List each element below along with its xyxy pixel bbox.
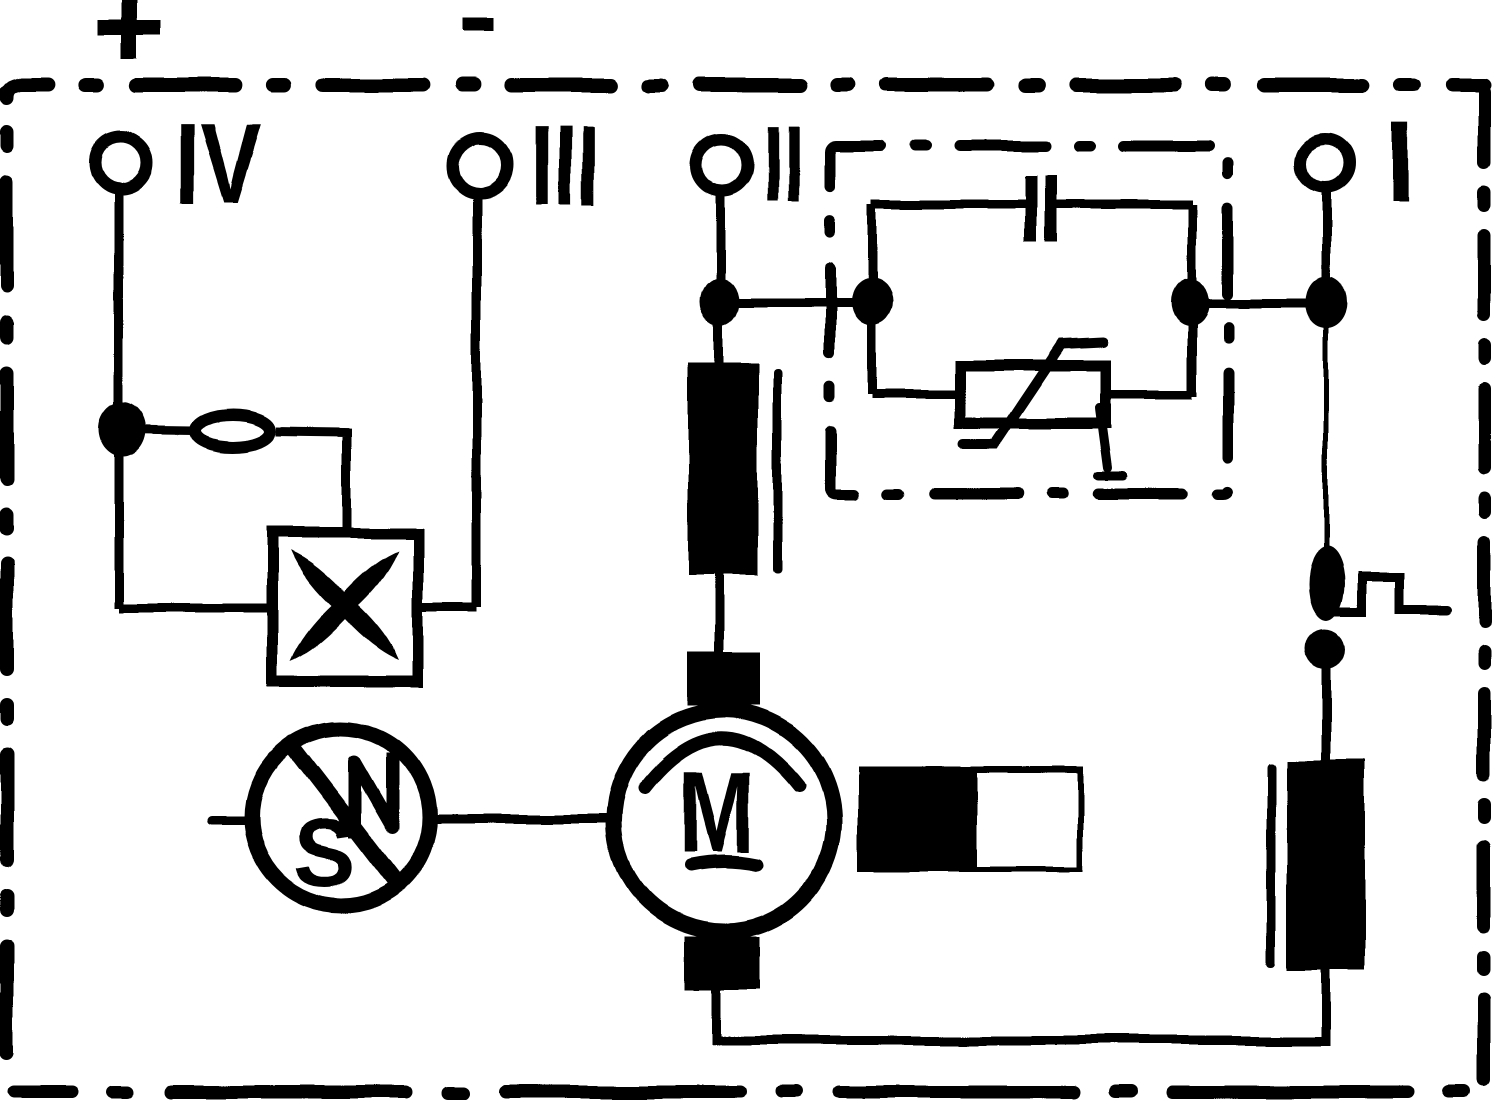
terminal II circle (696, 139, 748, 191)
wire: junction down left side (114, 430, 123, 608)
wire: resistor bottom down and left along bottom (717, 970, 1326, 1040)
wire: lamp right to III vertical (418, 604, 477, 613)
wire: I terminal down to junction (1322, 192, 1331, 302)
motor bottom brush (685, 936, 760, 989)
wire: down to resistor right branch (1322, 660, 1331, 762)
fuse (oval) (196, 415, 270, 447)
svg-text:S: S (293, 801, 356, 907)
lamp box with X (272, 533, 418, 681)
wire: loop top left to capacitor (872, 200, 1026, 209)
wire: II junction right to loop junction (720, 299, 872, 308)
junction node at I (1305, 276, 1347, 328)
resistor (terminal II branch, filled) (688, 363, 758, 575)
wire: bottom horizontal to lamp left (118, 604, 272, 613)
wire: loop bottom left to thermistor (872, 390, 960, 399)
wire: loop right vertical (1188, 204, 1197, 396)
junction node at IV branch (98, 402, 146, 458)
wire: sensor left stub (212, 816, 252, 825)
connector box (half black half white) (858, 767, 1083, 872)
wire: III terminal down (473, 193, 482, 608)
junction node loop left (851, 278, 893, 326)
junction node pulse upper (1309, 547, 1345, 621)
thermistor box (960, 342, 1123, 476)
terminal III circle (453, 138, 507, 192)
wire: thermistor right to loop right (1106, 390, 1192, 399)
terminal IV circle (95, 137, 147, 189)
wire: I junction down (thin taper) (1324, 302, 1329, 560)
pulse waveform symbol (1332, 577, 1447, 612)
stray line left of resistor (1267, 762, 1276, 967)
wire: IV terminal down to junction (114, 192, 123, 430)
junction node loop right (1171, 278, 1209, 326)
svg-text:I: I (1384, 100, 1415, 225)
wire: loop right junction to I junction (1190, 299, 1326, 308)
svg-text:III: III (530, 103, 600, 228)
inner dashed box (control module boundary) (830, 146, 1228, 494)
junction node pulse lower (1305, 629, 1345, 669)
sensor S circle (252, 728, 430, 907)
motor M (614, 711, 834, 931)
wire: II junction down to resistor (715, 302, 724, 365)
minus sign (-) battery negative (461, 18, 493, 31)
wire: fuse right then down to lamp top (276, 431, 347, 533)
wire: resistor to motor brush (715, 575, 724, 655)
wire: capacitor right to loop right vertical (1057, 200, 1192, 209)
svg-text:II: II (763, 102, 803, 227)
motor top brush (687, 652, 760, 706)
capacitor plates (1025, 175, 1057, 242)
svg-text:IV: IV (174, 101, 262, 226)
stray line right of resistor (773, 368, 782, 573)
terminal I circle (1301, 139, 1349, 187)
resistor (right branch, filled) (1287, 760, 1365, 970)
junction node at II (701, 278, 739, 326)
plus sign (+) battery positive (98, 0, 161, 59)
wire: loop left vertical (868, 204, 877, 394)
wire: II terminal down to junction (716, 195, 725, 302)
wire: sensor to motor (430, 815, 612, 824)
wire: junction to fuse (122, 430, 194, 431)
